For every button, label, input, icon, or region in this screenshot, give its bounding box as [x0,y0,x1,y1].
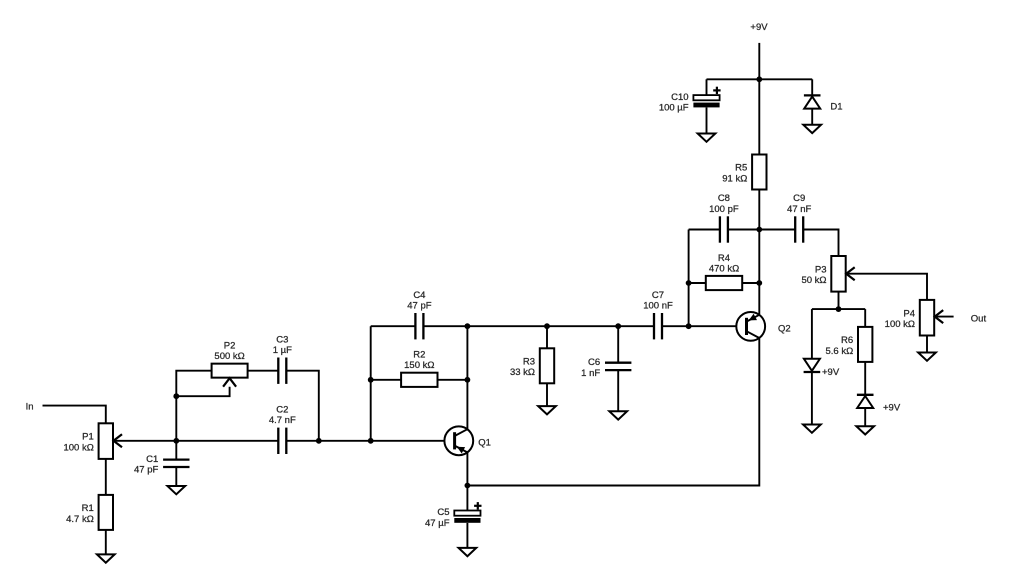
svg-text:91 kΩ: 91 kΩ [722,173,747,184]
node Q1 collector junction [465,323,471,329]
resistor R2 150 kOhm [371,350,468,387]
svg-text:150 kΩ: 150 kΩ [404,360,434,371]
node C8/C9 row junction [756,227,762,233]
ground below R3 [538,406,556,414]
wire C8/C9 row [689,229,720,231]
node R3 junction [544,323,550,329]
svg-text:4.7 nF: 4.7 nF [269,415,296,426]
wire Q1 emitter to bottom rail [466,452,468,485]
resistor R4 470 kOhm [689,253,760,290]
ground below C1 [167,486,185,494]
diode D2 (anode up) [804,359,840,425]
svg-text:C10: C10 [671,92,688,103]
wire C3 right branch [286,371,319,441]
potentiometer P1 100 kOhm [63,423,122,459]
capacitor C5 47 uF [425,486,481,548]
node R4 left junction [686,280,692,286]
capacitor C7 100 nF [643,290,673,340]
svg-text:+9V: +9V [822,367,840,378]
ground below C5 [459,548,477,556]
svg-text:470 kΩ: 470 kΩ [709,263,739,274]
svg-text:In: In [26,401,34,412]
potentiometer P4 100 kOhm [885,300,944,336]
svg-text:C9: C9 [793,193,805,204]
svg-text:100 kΩ: 100 kΩ [885,319,915,330]
wire main vertical R5 to Q2 emitter [758,189,760,314]
resistor R3 33 kOhm [510,326,554,406]
svg-text:R4: R4 [718,253,730,264]
svg-text:R5: R5 [735,163,747,174]
resistor R5 91 kOhm [722,79,766,189]
ground below D2 [803,425,821,433]
svg-text:33 kΩ: 33 kΩ [510,367,535,378]
wire P4 wiper / Out [935,314,987,325]
wire left branch down [811,309,813,359]
node C6 junction [615,323,621,329]
svg-text:R1: R1 [82,503,94,514]
wire Q2 collector down / bottom feedback rail [467,338,759,485]
potentiometer P3 50 kOhm [801,256,854,292]
wire P4 bottom [926,336,928,353]
wire signal rail (C4 right to Q2 base) [423,325,654,327]
wire P3 bottom [838,292,840,310]
svg-text:C2: C2 [276,405,288,416]
wire junction row to branches [812,308,865,310]
svg-text:C5: C5 [437,507,449,518]
svg-text:5.6 kΩ: 5.6 kΩ [825,346,853,357]
wire base rail P1-wiper to Q1 base [176,440,278,442]
capacitor C3 1 uF [273,334,292,384]
svg-text:Out: Out [971,314,987,325]
svg-text:R3: R3 [523,356,535,367]
ground below D3 [856,426,874,434]
svg-text:D1: D1 [830,101,842,112]
In port label [26,401,34,412]
ground below C6 [609,411,627,419]
node loop1 bottom junction [368,438,374,444]
capacitor C10 100 uF [659,79,721,133]
svg-text:C6: C6 [588,357,600,368]
svg-text:100 nF: 100 nF [643,301,673,312]
svg-text:47 µF: 47 µF [425,518,450,529]
svg-text:P3: P3 [815,264,827,275]
ground below P4 [918,353,936,361]
diode D1 [804,79,843,125]
wire R2/C4 loop left vertical [370,326,372,441]
capacitor C8 100 pF [709,193,739,243]
svg-text:C4: C4 [413,290,425,301]
svg-text:C7: C7 [652,290,664,301]
capacitor C6 1 nF [581,326,631,411]
resistor R1 4.7 kOhm [66,495,113,555]
svg-text:C1: C1 [146,454,158,465]
wire P1 wiper [114,440,177,442]
wire Q1 collector [466,326,468,429]
ground below R1 [97,554,115,562]
wire P2 to C3 [248,370,279,372]
node C5 junction [465,483,471,489]
node top rail junction [756,76,762,82]
wire P2 wiper [176,387,229,397]
node R4 right junction [756,280,762,286]
node P2 wiper junction [173,393,179,399]
svg-text:Q2: Q2 [778,323,791,334]
svg-text:P1: P1 [82,432,94,443]
svg-text:100 µF: 100 µF [659,103,689,114]
svg-text:C3: C3 [276,334,288,345]
node C2 right junction [316,438,322,444]
svg-text:C8: C8 [718,193,730,204]
svg-text:100 kΩ: 100 kΩ [63,443,93,454]
ground below C10 [698,134,716,142]
svg-text:R2: R2 [413,350,425,361]
node loop-bottom junction [686,323,692,329]
+9V supply label [750,22,768,33]
svg-text:500 kΩ: 500 kΩ [214,351,244,362]
diode D3 (cathode up) [857,395,901,426]
wire In to P1 [43,406,106,424]
potentiometer P2 500 kOhm [212,341,248,387]
resistor R6 5.6 kOhm [825,309,872,395]
svg-text:100 pF: 100 pF [709,204,739,215]
wire feedback loop left vertical [688,230,690,327]
wire top rail [707,78,813,80]
capacitor C9 47 nF [787,193,811,243]
svg-text:P2: P2 [224,341,236,352]
node P3 bottom junction [836,306,842,312]
node R2 right junction [465,377,471,383]
wire P1 to R1 [105,459,107,495]
svg-text:+9V: +9V [750,22,768,33]
capacitor C2 4.7 nF [269,405,296,455]
node C1 junction [173,438,179,444]
transistor Q2 (PNP, emitter up) [736,312,790,341]
capacitor C4 47 pF [371,290,432,340]
wire P2 left branch [176,371,211,441]
svg-text:R6: R6 [841,335,853,346]
wire +9V stem [758,43,760,79]
transistor Q1 (PNP, emitter down) [444,426,491,455]
svg-text:1 nF: 1 nF [581,368,600,379]
svg-text:4.7 kΩ: 4.7 kΩ [66,514,94,525]
svg-text:47 pF: 47 pF [134,465,158,476]
svg-text:1 µF: 1 µF [273,345,292,356]
ground below D1 [803,125,821,133]
wire P3 wiper to P4 top [846,274,927,300]
svg-text:+9V: +9V [883,402,901,413]
svg-text:P4: P4 [903,308,915,319]
svg-text:Q1: Q1 [478,437,491,448]
svg-text:50 kΩ: 50 kΩ [801,275,826,286]
svg-text:47 pF: 47 pF [407,301,431,312]
svg-text:47 nF: 47 nF [787,204,811,215]
node R2 left junction [368,377,374,383]
capacitor C1 47 pF [134,441,189,486]
